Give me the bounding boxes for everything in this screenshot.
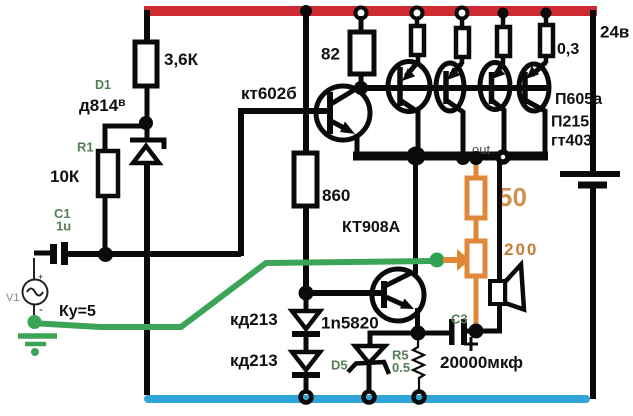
resistor 82 [350,32,374,74]
node emitter junction dot [411,326,426,341]
svg-text:Ку=5: Ку=5 [59,303,96,320]
transistor T3 output [480,63,510,153]
green feedback wire from V1 to potentiometer [28,261,433,329]
label 24в [600,23,629,42]
label out [472,142,490,157]
label 1п5820 [321,314,379,333]
polarity mark C3 [464,337,478,351]
label D5 [331,358,348,373]
node big dot output bus [407,147,426,166]
label кт602б [241,84,297,103]
transistor T4 output [519,62,549,153]
label R5 0.5 [392,348,410,376]
svg-text:1u: 1u [56,219,71,234]
svg-text:кд213: кд213 [230,310,278,329]
source V1 [23,258,48,318]
ground ring at R5 [414,392,425,403]
diode кд213 lower [292,337,320,391]
speaker [490,265,524,310]
wire base bus of output transistors [361,85,547,91]
svg-text:860: 860 [322,186,350,205]
wire R1 to C1 node [103,196,108,252]
wire 82 to collector node [359,74,364,86]
ground ring at diode string [301,392,312,403]
node dot rail Rd [541,8,552,19]
node dot rail at x306 [300,5,312,17]
capacitor C1 [50,242,68,265]
label кд213 (upper) [230,310,278,329]
svg-text:0,3: 0,3 [557,41,579,58]
label кд213 (lower) [230,351,278,370]
ground rail (blue bus) [144,395,590,403]
resistor 3,6K [135,42,157,86]
svg-text:20000мкф: 20000мкф [440,353,523,372]
svg-text:гт403: гт403 [551,133,592,150]
svg-text:D1: D1 [95,78,111,92]
label 1u [56,219,71,234]
label 860 [322,186,350,205]
svg-text:-: - [39,302,43,316]
label 3,6К [164,50,199,69]
svg-text:50: 50 [498,182,527,212]
node diode/base junction dot [299,286,314,301]
transistor кт602б [316,86,370,140]
orange wiper arrow [443,249,470,271]
capacitor C3 [449,319,467,345]
ground ring at D5 [364,392,375,403]
node C1/R1 junction dot [98,247,113,262]
label 200 [504,240,538,259]
label D1 [95,78,111,92]
resistor 860 [294,153,317,206]
node dot pot tap [469,151,483,165]
svg-text:П215: П215 [551,114,589,131]
wire speaker drop [497,160,502,281]
node dot rail Rc [498,8,509,19]
wire emitter node to D5 [370,333,418,347]
+24V power rail (red bus) [144,6,597,16]
wire 860 to diode node [303,206,309,290]
label C1 [54,206,71,221]
svg-text:24в: 24в [600,23,629,42]
svg-text:0.5: 0.5 [392,360,410,375]
node ring speaker tap [498,152,508,162]
output resistor Rb [456,16,469,64]
resistor R5 zigzag [413,339,424,390]
label C3 [451,312,468,327]
node dot pot bottom / C3 [469,324,484,339]
wire input row up to кт602б base [241,111,327,256]
svg-text:+: + [38,272,43,282]
wire battery branch [590,10,596,171]
wire 3,6K to node [145,86,150,138]
label 82 [321,45,340,64]
transistor T1 output [388,62,430,153]
diode кд213 upper [292,299,320,334]
wire node to R1 branch [105,126,145,151]
output resistor Ra [411,16,424,66]
orange potentiometer 200 [467,241,485,329]
label Ку=5 [59,303,96,320]
label КТ908А [342,219,401,236]
svg-text:C3: C3 [451,312,468,327]
node junction dot D1 top [139,116,153,130]
transistor T2 output [436,63,464,153]
node ring rail Rb [457,8,468,19]
label 0,3 [557,41,579,58]
node ring 82 on rail [356,8,367,19]
wire speaker to C3 node [467,304,500,331]
label R1 [77,140,94,155]
wire кт602б emitter to out bus [355,134,360,154]
label 20000мкф [440,353,523,372]
node green dot at pot wiper [430,253,445,268]
svg-text:D5: D5 [331,358,348,373]
zener diode D1 [130,140,164,163]
wire V1 to C1 [34,251,50,256]
wire output bus [353,152,548,161]
svg-text:кт602б: кт602б [241,84,297,103]
wire rail to 82 [359,16,364,32]
node ring rail Ra [412,8,423,19]
labels П605а П215 гт403 [551,91,602,150]
orange resistor 50 [467,160,485,242]
wire left rail vertical [144,10,150,42]
svg-text:кд213: кд213 [230,351,278,370]
wire bus down to КТ908А collector [413,160,418,274]
label 10К [50,167,80,186]
node dot T2 collector [456,151,470,165]
transistor КТ908А [372,269,424,333]
svg-text:V1: V1 [6,292,19,304]
wire zener to ground rail [144,163,150,395]
node collector кт602б dot [354,81,368,95]
svg-text:3,6К: 3,6К [164,50,199,69]
svg-text:10К: 10К [50,167,80,186]
wire battery to ground rail [590,188,596,399]
svg-text:200: 200 [504,240,538,259]
wire node to КТ908А base [306,290,383,296]
wire C1 to input node row [68,251,241,257]
svg-text:R1: R1 [77,140,94,155]
wire C3 to emitter node [418,331,449,336]
label д814в [79,95,126,115]
label V1 [6,292,19,304]
output resistor Rd 0,3 [540,16,553,63]
label 50 [498,182,527,212]
resistor R1 [98,151,118,196]
diode D5 schottky [348,346,389,391]
ground symbol (green) at V1 [18,336,57,356]
battery 24в [560,174,620,185]
svg-text:КТ908А: КТ908А [342,219,401,236]
output resistor Rc [497,16,510,64]
wire rail down to 860 [303,11,309,153]
svg-text:1n5820: 1n5820 [321,314,379,333]
svg-text:82: 82 [321,45,340,64]
